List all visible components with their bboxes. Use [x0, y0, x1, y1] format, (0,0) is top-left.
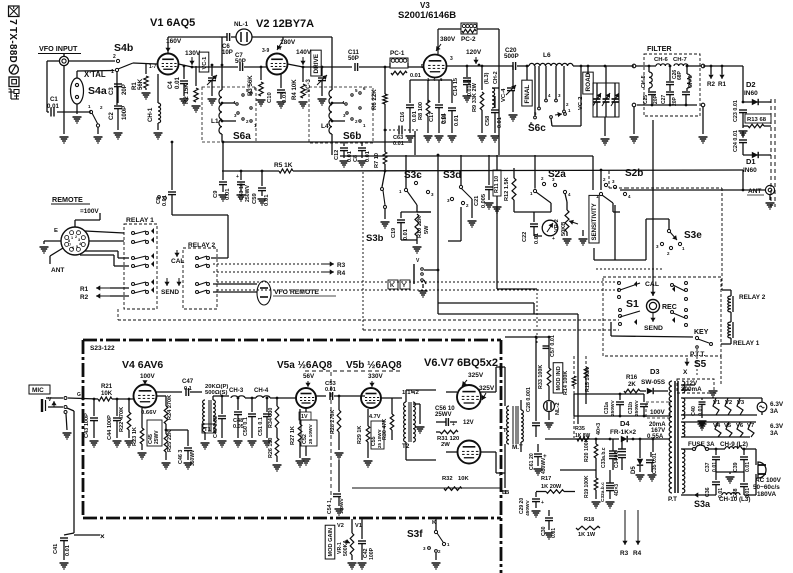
svg-text:180V: 180V — [280, 39, 296, 46]
svg-text:E: E — [54, 228, 58, 234]
svg-text:SEND: SEND — [644, 325, 663, 332]
svg-text:10K: 10K — [101, 390, 113, 397]
svg-text:+: + — [452, 422, 455, 428]
svg-text:C14 15: C14 15 — [453, 78, 459, 96]
svg-text:C52: C52 — [302, 434, 308, 444]
svg-text:100V: 100V — [650, 409, 666, 416]
svg-text:NL-2: NL-2 — [555, 403, 561, 415]
svg-text:R19 100K: R19 100K — [584, 475, 590, 498]
svg-text:0.01: 0.01 — [410, 73, 421, 79]
svg-text:S3f: S3f — [407, 529, 423, 540]
svg-text:C10: C10 — [267, 91, 273, 103]
svg-text:S5: S5 — [694, 359, 707, 370]
svg-text:120V: 120V — [466, 49, 482, 56]
svg-text:P.T: P.T — [668, 496, 677, 503]
svg-text:R22 470K: R22 470K — [119, 407, 125, 432]
svg-text:180VA: 180VA — [757, 491, 776, 498]
svg-text:V5a ½6AQ8: V5a ½6AQ8 — [277, 360, 332, 371]
svg-text:R20 100K: R20 100K — [584, 438, 590, 462]
svg-text:4D×3: 4D×3 — [614, 484, 620, 496]
svg-text:C43 100P: C43 100P — [84, 413, 90, 438]
svg-text:C31a: C31a — [604, 402, 610, 414]
svg-text:D4: D4 — [620, 419, 630, 428]
svg-text:CH-7: CH-7 — [673, 57, 687, 63]
svg-text:P.T.T.: P.T.T. — [690, 351, 706, 358]
svg-text:K: K — [390, 283, 395, 289]
svg-text:R33 100K: R33 100K — [538, 365, 544, 389]
svg-text:PC-1: PC-1 — [390, 50, 405, 57]
svg-text:R27 1K: R27 1K — [290, 426, 296, 445]
svg-text:RELAY 2: RELAY 2 — [188, 242, 215, 249]
svg-text:0.01: 0.01 — [403, 229, 409, 240]
svg-text:C50 0.1: C50 0.1 — [243, 417, 249, 436]
svg-text:TX-88D: TX-88D — [7, 27, 18, 63]
svg-text:C41: C41 — [53, 544, 59, 554]
svg-text:CH-8: CH-8 — [688, 75, 694, 88]
svg-text:250WV: 250WV — [634, 399, 640, 416]
svg-text:S3b: S3b — [366, 233, 384, 244]
svg-text:CAL: CAL — [645, 281, 659, 288]
svg-text:C19: C19 — [391, 228, 397, 238]
svg-text:MIC: MIC — [32, 387, 44, 394]
svg-text:C46 3: C46 3 — [178, 450, 184, 464]
svg-text:S2a: S2a — [548, 169, 566, 180]
svg-text:R26 150: R26 150 — [268, 438, 274, 458]
svg-text:V2 12BY7A: V2 12BY7A — [256, 18, 314, 30]
svg-text:R18: R18 — [584, 517, 594, 523]
svg-text:C35 0.01: C35 0.01 — [652, 453, 658, 474]
svg-text:L1: L1 — [211, 118, 219, 125]
svg-text:0.01: 0.01 — [497, 117, 503, 128]
svg-text:VFO REMOTE: VFO REMOTE — [274, 289, 319, 296]
svg-text:0.01: 0.01 — [225, 188, 231, 200]
svg-text:0.01: 0.01 — [264, 194, 270, 206]
svg-text:C47: C47 — [182, 378, 194, 385]
svg-text:+: + — [541, 500, 544, 506]
svg-text:D5: D5 — [630, 466, 637, 474]
svg-text:S4b: S4b — [114, 42, 133, 54]
svg-text:25 10WV: 25 10WV — [308, 423, 314, 444]
svg-text:AC 100V: AC 100V — [755, 477, 782, 484]
svg-text:7: 7 — [279, 46, 282, 52]
svg-text:R25 22K: R25 22K — [167, 430, 173, 452]
svg-text:L4: L4 — [321, 123, 329, 130]
svg-text:R30 47K: R30 47K — [382, 419, 388, 440]
svg-text:1K 8W: 1K 8W — [575, 433, 591, 439]
svg-text:V5b ½6AQ8: V5b ½6AQ8 — [346, 360, 402, 371]
svg-text:NL-1: NL-1 — [234, 21, 249, 28]
svg-text:56K: 56K — [137, 78, 144, 90]
svg-text:R4 10K: R4 10K — [291, 79, 298, 100]
svg-text:50KB: 50KB — [561, 222, 567, 236]
svg-text:FR-1K×2: FR-1K×2 — [610, 429, 637, 436]
svg-text:D1: D1 — [746, 157, 756, 166]
svg-text:250WV: 250WV — [245, 184, 251, 202]
svg-text:V5: V5 — [724, 423, 732, 429]
svg-text:R2: R2 — [707, 81, 716, 88]
svg-text:0.01: 0.01 — [393, 141, 404, 147]
svg-text:CH-5: CH-5 — [641, 75, 647, 88]
svg-text:R14 100K: R14 100K — [563, 371, 569, 395]
svg-text:7: 7 — [69, 243, 71, 247]
svg-text:5: 5 — [421, 64, 424, 70]
svg-text:CH-10 (L3): CH-10 (L3) — [719, 496, 751, 503]
svg-text:C39: C39 — [733, 462, 739, 472]
svg-text:S6b: S6b — [343, 131, 361, 142]
svg-text:B: B — [505, 490, 509, 496]
svg-text:V6.V7 6BQ5x2: V6.V7 6BQ5x2 — [424, 357, 498, 369]
svg-text:S4a: S4a — [88, 85, 107, 97]
svg-text:0.01: 0.01 — [712, 462, 718, 472]
svg-text:C12: C12 — [334, 150, 340, 160]
svg-text:R24 270K: R24 270K — [167, 395, 173, 420]
svg-text:325V: 325V — [468, 372, 484, 379]
svg-text:0.005: 0.005 — [481, 194, 487, 208]
svg-text:R8 100: R8 100 — [418, 102, 424, 120]
svg-text:R4: R4 — [337, 270, 346, 277]
svg-text:8: 8 — [68, 239, 70, 243]
svg-text:325V: 325V — [479, 385, 495, 392]
svg-text:V7: V7 — [747, 423, 755, 429]
svg-text:MOD IND: MOD IND — [556, 366, 562, 390]
svg-text:C16: C16 — [400, 112, 406, 122]
svg-text:C25: C25 — [643, 95, 649, 104]
svg-text:CAL: CAL — [171, 258, 184, 265]
svg-text:100P: 100P — [121, 106, 128, 120]
svg-text:R7 10: R7 10 — [374, 153, 380, 168]
svg-text:V3: V3 — [420, 1, 430, 10]
svg-text:CH-4: CH-4 — [254, 387, 269, 394]
svg-text:10P: 10P — [222, 49, 233, 56]
svg-text:0.01: 0.01 — [174, 77, 181, 89]
svg-text:R11 10: R11 10 — [494, 176, 500, 193]
svg-text:50~60c/s: 50~60c/s — [753, 484, 780, 491]
svg-text:R35: R35 — [575, 426, 585, 432]
svg-text:REC: REC — [662, 304, 677, 311]
svg-text:REMOTE: REMOTE — [52, 195, 83, 204]
svg-text:C61 20: C61 20 — [529, 453, 535, 470]
svg-text:40×3: 40×3 — [596, 423, 602, 435]
svg-text:V1: V1 — [713, 400, 721, 406]
svg-text:IN60: IN60 — [744, 90, 758, 97]
svg-text:VC-1: VC-1 — [202, 57, 208, 70]
svg-text:56V: 56V — [303, 373, 315, 380]
svg-text:2W: 2W — [441, 442, 450, 448]
svg-text:100P: 100P — [369, 547, 375, 560]
svg-text:140V: 140V — [296, 49, 312, 56]
svg-text:+: + — [552, 236, 555, 242]
svg-text:VC-2: VC-2 — [578, 96, 584, 110]
svg-text:C57 0.01: C57 0.01 — [550, 335, 556, 357]
svg-text:FILTER: FILTER — [647, 44, 672, 53]
svg-text:0.01: 0.01 — [454, 115, 460, 126]
svg-text:CH-3: CH-3 — [229, 387, 244, 394]
svg-text:R32: R32 — [442, 476, 453, 482]
svg-text:S2001/6146B: S2001/6146B — [398, 10, 456, 21]
svg-text:C34 0.5: C34 0.5 — [614, 450, 620, 468]
svg-text:X: X — [683, 369, 688, 376]
svg-text:20P: 20P — [653, 94, 659, 104]
svg-text:V1 6AQ5: V1 6AQ5 — [150, 17, 195, 29]
svg-text:R16: R16 — [626, 374, 638, 381]
svg-text:50P: 50P — [235, 58, 246, 65]
svg-text:IN60: IN60 — [743, 167, 757, 174]
svg-text:S6a: S6a — [233, 131, 251, 142]
svg-text:5: 5 — [76, 245, 78, 249]
svg-text:12V: 12V — [463, 420, 474, 426]
svg-text:C23 0.01: C23 0.01 — [733, 100, 739, 122]
svg-text:6: 6 — [72, 246, 74, 250]
svg-text:50P: 50P — [348, 55, 359, 62]
svg-text:4.7V: 4.7V — [369, 414, 381, 420]
svg-text:VFO INPUT: VFO INPUT — [39, 44, 78, 53]
svg-text:D3: D3 — [650, 367, 660, 376]
svg-text:VC-3: VC-3 — [305, 79, 312, 93]
svg-text:6.3V: 6.3V — [770, 401, 784, 408]
svg-text:3A: 3A — [770, 430, 779, 437]
svg-text:FINAL: FINAL — [524, 85, 531, 104]
svg-text:ANT: ANT — [51, 267, 64, 274]
svg-text:450WV: 450WV — [525, 499, 531, 516]
svg-text:V3: V3 — [737, 400, 745, 406]
svg-text:R1: R1 — [718, 81, 727, 88]
svg-text:C49 0.05: C49 0.05 — [213, 416, 219, 438]
svg-text:0.01: 0.01 — [47, 103, 59, 110]
svg-text:P: P — [499, 366, 503, 372]
svg-text:KEY: KEY — [694, 329, 709, 336]
svg-text:C22: C22 — [522, 232, 528, 242]
svg-text:C44 100P: C44 100P — [107, 415, 113, 440]
svg-text:V6: V6 — [736, 423, 744, 429]
svg-text:1: 1 — [111, 69, 114, 75]
svg-text:R21: R21 — [101, 383, 113, 390]
svg-text:C58: C58 — [485, 116, 491, 126]
svg-text:1K 20W: 1K 20W — [541, 484, 562, 490]
svg-text:V4: V4 — [713, 423, 721, 429]
svg-text:20P: 20P — [121, 84, 128, 95]
svg-text:C33a.b.c: C33a.b.c — [601, 447, 607, 468]
svg-text:C3: C3 — [108, 87, 115, 95]
svg-text:RELAY 1: RELAY 1 — [126, 217, 154, 224]
svg-text:1K 1W: 1K 1W — [578, 532, 596, 538]
svg-text:C21: C21 — [474, 196, 480, 206]
svg-text:380V: 380V — [440, 36, 456, 43]
svg-text:450WV: 450WV — [541, 457, 547, 474]
svg-text:3: 3 — [450, 56, 453, 62]
svg-text:C18: C18 — [442, 114, 448, 124]
svg-text:RELAY 2: RELAY 2 — [739, 294, 766, 301]
svg-text:0.1: 0.1 — [184, 386, 192, 392]
svg-text:5W: 5W — [424, 225, 430, 234]
svg-text:R2 15K: R2 15K — [183, 83, 190, 104]
svg-text:2K: 2K — [628, 381, 636, 388]
svg-text:2: 2 — [75, 235, 77, 239]
svg-text:C27: C27 — [661, 95, 667, 104]
svg-text:C32a.b.c: C32a.b.c — [600, 482, 606, 502]
svg-text:C51 0.1: C51 0.1 — [258, 417, 264, 436]
svg-text:R1: R1 — [80, 286, 89, 293]
svg-text:25WV: 25WV — [435, 411, 453, 418]
svg-text:MOD GAIN: MOD GAIN — [328, 528, 334, 557]
svg-text:(IL3): (IL3) — [484, 72, 490, 84]
svg-text:V2: V2 — [725, 400, 733, 406]
svg-text:0.01: 0.01 — [325, 387, 336, 393]
svg-text:0.66V: 0.66V — [141, 410, 156, 416]
svg-text:R9 33K 2W: R9 33K 2W — [472, 82, 478, 112]
svg-text:R29 1K: R29 1K — [357, 426, 363, 444]
svg-text:V2: V2 — [337, 523, 344, 529]
svg-text:V1: V1 — [355, 523, 362, 529]
svg-text:1: 1 — [71, 236, 73, 240]
svg-text:VC-4: VC-4 — [501, 88, 507, 102]
svg-text:CH-1: CH-1 — [147, 107, 154, 122]
svg-text:R6 22K: R6 22K — [371, 89, 378, 110]
svg-text:R10 22K: R10 22K — [417, 216, 423, 238]
svg-text:R34 330: R34 330 — [268, 408, 274, 428]
svg-text:SW-05S: SW-05S — [641, 379, 666, 386]
svg-text:C1: C1 — [50, 96, 58, 103]
svg-text:1-7: 1-7 — [149, 64, 156, 70]
svg-text:S23-122: S23-122 — [90, 345, 115, 352]
svg-text:DRIVE: DRIVE — [313, 53, 320, 73]
svg-text:C28 0.001: C28 0.001 — [526, 387, 532, 412]
svg-text:R23 1K: R23 1K — [132, 427, 138, 446]
svg-text:ROAD: ROAD — [585, 72, 592, 91]
svg-text:0.01: 0.01 — [534, 233, 540, 244]
svg-text:R4: R4 — [633, 550, 642, 557]
svg-text:S2b: S2b — [625, 168, 643, 179]
svg-text:R2: R2 — [80, 294, 89, 301]
svg-text:100V: 100V — [140, 373, 156, 380]
svg-text:SEND: SEND — [161, 289, 179, 296]
svg-text:500P: 500P — [504, 53, 519, 60]
svg-text:RELAY 1: RELAY 1 — [733, 340, 760, 347]
svg-text:6.3V: 6.3V — [770, 423, 784, 430]
svg-text:CH-2: CH-2 — [493, 71, 499, 84]
svg-text:3A: 3A — [770, 408, 779, 415]
svg-text:CH-6: CH-6 — [654, 57, 668, 63]
svg-text:R13 68: R13 68 — [747, 117, 767, 123]
svg-text:ANT: ANT — [748, 188, 761, 195]
svg-text:P: P — [499, 472, 503, 478]
svg-text:2: 2 — [113, 54, 116, 60]
svg-text:S3e: S3e — [684, 230, 702, 241]
svg-text:×: × — [100, 532, 105, 541]
svg-text:C4: C4 — [167, 81, 174, 89]
svg-text:500Ω(S): 500Ω(S) — [205, 390, 227, 396]
svg-text:G: G — [77, 392, 81, 398]
svg-text:C24 0.01: C24 0.01 — [733, 130, 739, 152]
svg-text:0.01: 0.01 — [745, 462, 751, 472]
svg-text:10K: 10K — [458, 476, 469, 482]
svg-text:C17: C17 — [429, 112, 435, 122]
svg-text:25WV: 25WV — [154, 430, 160, 444]
svg-text:+: + — [236, 174, 239, 180]
svg-text:S3d: S3d — [443, 170, 461, 181]
svg-text:3-9: 3-9 — [262, 48, 269, 54]
svg-text:R17: R17 — [541, 476, 551, 482]
svg-text:SENSITIVITY: SENSITIVITY — [591, 203, 598, 240]
svg-text:C59: C59 — [252, 192, 258, 204]
svg-text:PC-2: PC-2 — [461, 36, 476, 43]
svg-text:C54 1: C54 1 — [327, 500, 333, 514]
svg-text:L6: L6 — [543, 52, 551, 59]
svg-text:D2: D2 — [746, 80, 756, 89]
svg-text:R3: R3 — [620, 550, 629, 557]
svg-text:S3a: S3a — [694, 499, 711, 509]
svg-text:R12 1.5K: R12 1.5K — [504, 177, 510, 201]
svg-text:330V: 330V — [368, 373, 384, 380]
svg-text:C2: C2 — [108, 112, 115, 120]
svg-text:0.01: 0.01 — [65, 545, 71, 556]
svg-text:=100V: =100V — [80, 208, 99, 215]
svg-text:130V: 130V — [185, 50, 201, 57]
svg-text:C29 20: C29 20 — [519, 498, 525, 514]
svg-text:C9: C9 — [213, 190, 219, 198]
svg-text:7: 7 — [7, 19, 19, 25]
svg-text:Y: Y — [402, 283, 406, 289]
svg-text:R5 1K: R5 1K — [274, 162, 293, 169]
svg-text:C31b: C31b — [628, 402, 634, 414]
svg-text:250WV: 250WV — [610, 399, 616, 416]
svg-text:V4 6AV6: V4 6AV6 — [122, 359, 163, 371]
svg-text:VR-2: VR-2 — [554, 219, 560, 232]
svg-text:R3: R3 — [337, 262, 346, 269]
svg-text:C37: C37 — [705, 462, 711, 472]
svg-text:0.01: 0.01 — [282, 91, 288, 103]
svg-text:S1: S1 — [626, 298, 639, 310]
svg-text:1V: 1V — [301, 414, 308, 420]
svg-text:68P: 68P — [677, 70, 683, 80]
svg-text:R3 56K: R3 56K — [247, 75, 254, 96]
